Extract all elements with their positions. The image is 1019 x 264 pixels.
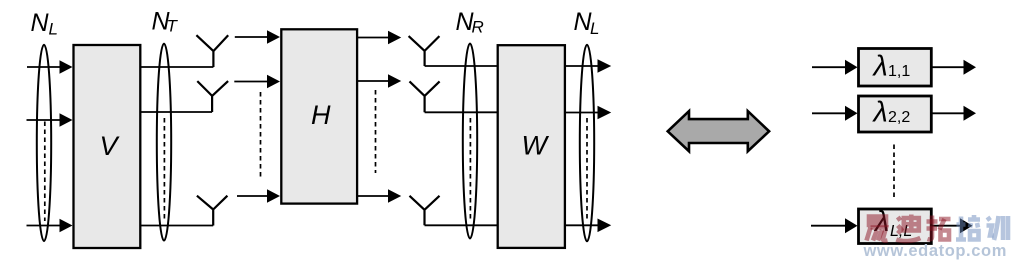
ellipse N_L input xyxy=(37,45,51,241)
dashed line between lambda blocks xyxy=(893,145,895,198)
dashed line inside N_T ellipse xyxy=(163,118,165,221)
antenna TX2 xyxy=(197,81,228,112)
svg-text:V: V xyxy=(100,131,121,161)
wire H to RX2 xyxy=(358,80,390,82)
wire RX1 to W xyxy=(425,65,497,67)
watermark char tuo (red) xyxy=(927,216,951,240)
equivalence double arrow xyxy=(668,111,769,151)
wire output 3 xyxy=(566,224,599,226)
wire TX2 to H xyxy=(234,81,268,83)
dashed line right of H xyxy=(375,90,377,173)
wire input 3 xyxy=(27,225,61,227)
svg-text:N: N xyxy=(31,9,50,37)
wire H to RX3 xyxy=(358,195,390,197)
wire input 2 xyxy=(27,119,61,121)
svg-text:1,1: 1,1 xyxy=(888,63,910,80)
ellipse N_T xyxy=(157,44,171,241)
antenna RX1 xyxy=(409,36,440,66)
antenna TX3 xyxy=(197,196,228,226)
wire into lambda 2 xyxy=(812,112,846,114)
wire V to antenna 2 xyxy=(141,111,212,113)
dashed line inside input ellipse xyxy=(44,122,46,222)
antenna RX2 xyxy=(410,81,440,112)
wire V to antenna 1 xyxy=(141,66,213,68)
wire RX3 to W xyxy=(425,224,498,226)
svg-text:L: L xyxy=(590,19,599,38)
antenna RX3 xyxy=(410,196,440,226)
watermark char di (red) xyxy=(896,215,920,242)
wire out of lambda 1 xyxy=(932,66,965,68)
wire output 2 xyxy=(566,112,599,114)
svg-text:R: R xyxy=(472,18,484,37)
wire input 1 xyxy=(27,66,61,68)
svg-text:T: T xyxy=(167,17,179,36)
block H xyxy=(281,29,357,203)
svg-text:λ: λ xyxy=(872,50,888,82)
ellipse N_L output xyxy=(580,45,594,242)
wire output 1 xyxy=(566,65,599,67)
block lambda 1,1 xyxy=(859,49,932,87)
dashed line inside N_R ellipse xyxy=(469,118,471,221)
wire TX1 to H xyxy=(235,36,268,38)
block lambda 2,2 xyxy=(859,96,932,132)
wire into lambda 3 xyxy=(811,225,846,227)
dashed line inside output ellipse xyxy=(586,118,588,221)
dashed line between TX antennas xyxy=(260,92,262,177)
svg-text:L: L xyxy=(49,20,58,39)
svg-text:www.edatop.com: www.edatop.com xyxy=(863,242,1007,260)
wire TX3 to H xyxy=(237,195,268,197)
wire V to antenna 3 xyxy=(141,225,213,227)
wire RX2 to W xyxy=(425,111,497,113)
antenna TX1 xyxy=(196,35,228,67)
block lambda L,L xyxy=(859,209,932,244)
wire out of lambda 2 xyxy=(932,112,965,114)
block V xyxy=(74,45,141,248)
wire out of lambda 3 xyxy=(932,225,965,227)
svg-text:λ: λ xyxy=(872,96,888,128)
wire into lambda 1 xyxy=(812,66,846,68)
svg-text:2,2: 2,2 xyxy=(888,109,910,126)
ellipse N_R xyxy=(463,44,477,239)
svg-text:W: W xyxy=(522,131,550,161)
wire H to RX1 xyxy=(358,37,390,39)
watermark char pei (blue) xyxy=(956,215,980,240)
watermark char yi (red) xyxy=(867,217,888,241)
watermark char xun (blue) xyxy=(987,216,1009,240)
block W xyxy=(498,45,565,248)
svg-text:H: H xyxy=(311,100,331,130)
